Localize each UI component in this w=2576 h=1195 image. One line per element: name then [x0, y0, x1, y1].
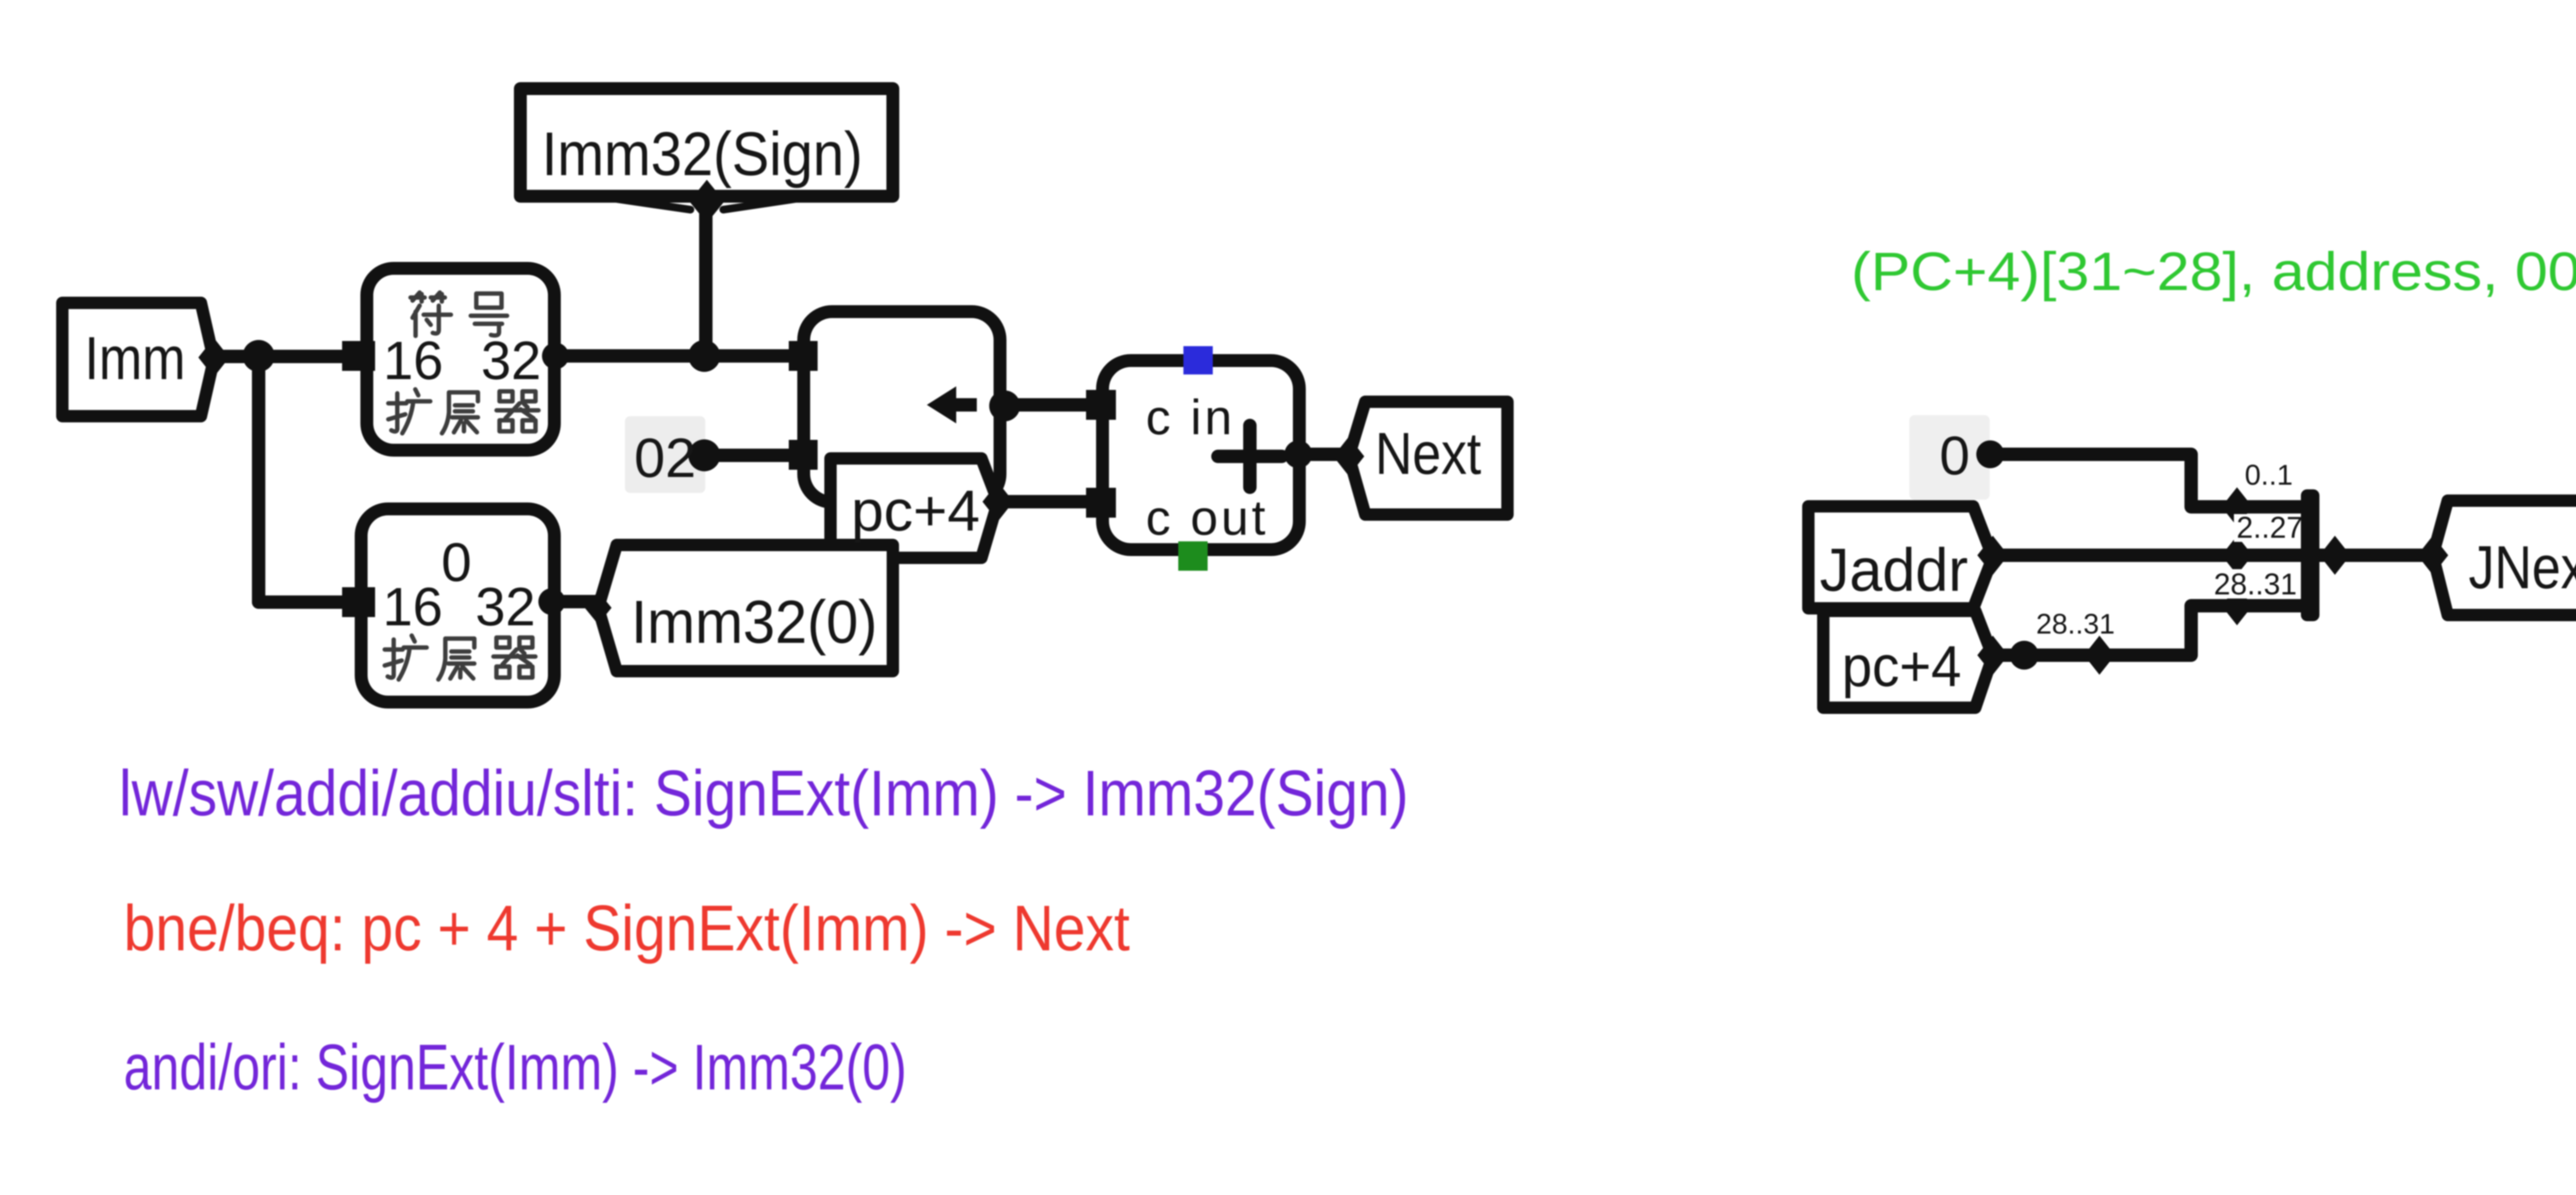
svg-text:32: 32: [476, 577, 536, 637]
svg-text:32: 32: [481, 331, 541, 391]
svg-text:lw/sw/addi/addiu/slti: SignExt: lw/sw/addi/addiu/slti: SignExt(Imm) -> I…: [119, 758, 1409, 829]
svg-text:0..1: 0..1: [2245, 458, 2293, 491]
svg-text:16: 16: [383, 577, 443, 637]
svg-text:Next: Next: [1375, 421, 1481, 487]
svg-text:0: 0: [1940, 425, 1970, 486]
svg-text:Imm32(0): Imm32(0): [631, 588, 877, 656]
svg-text:28..31: 28..31: [2214, 568, 2297, 601]
svg-text:pc+4: pc+4: [851, 479, 980, 543]
svg-text:Imm32(Sign): Imm32(Sign): [542, 119, 863, 189]
svg-text:JNext: JNext: [2469, 534, 2576, 602]
svg-text:andi/ori: SignExt(Imm) -> Imm3: andi/ori: SignExt(Imm) -> Imm32(0): [124, 1032, 907, 1103]
svg-text:(PC+4)[31~28], address, 00: (PC+4)[31~28], address, 00: [1851, 242, 2576, 302]
svg-text:Imm: Imm: [84, 325, 185, 392]
svg-text:0: 0: [442, 532, 472, 593]
svg-text:02: 02: [634, 426, 696, 489]
svg-text:16: 16: [383, 331, 444, 391]
svg-text:2..27: 2..27: [2236, 511, 2303, 544]
svg-text:c in: c in: [1146, 390, 1235, 445]
svg-text:pc+4: pc+4: [1842, 634, 1961, 698]
svg-text:28..31: 28..31: [2036, 608, 2115, 640]
svg-text:bne/beq: pc + 4 + SignExt(Imm): bne/beq: pc + 4 + SignExt(Imm) -> Next: [124, 893, 1130, 964]
svg-text:Jaddr: Jaddr: [1820, 536, 1968, 604]
svg-text:c out: c out: [1146, 490, 1268, 545]
